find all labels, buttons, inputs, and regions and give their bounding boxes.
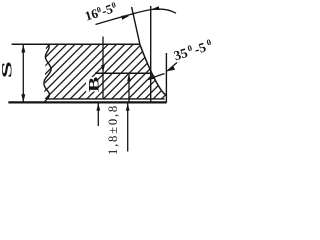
white pocket behind label B [86, 77, 98, 92]
B lower dimension line with up arrow [128, 74, 130, 102]
svg-text:1,8±0,8: 1,8±0,8 [106, 104, 120, 155]
hatching of plate section [0, 41, 219, 99]
S dimension line with arrows [22, 45, 24, 102]
bevel face (curved gas-cut edge) [140, 44, 166, 95]
svg-text:S: S [0, 61, 15, 78]
left break edge (wavy) [44, 44, 51, 102]
vertical reference line for 35 deg [165, 53, 167, 102]
label 16deg-5deg [83, 0, 118, 24]
35 deg leader to vertical line [167, 63, 177, 72]
35 deg arc segment toward bevel face [148, 74, 165, 80]
bevel face extension line above surface [132, 7, 140, 44]
internal root line (gap line) [95, 72, 150, 74]
root gap dimension line right (below plate) [127, 103, 129, 151]
B upper dimension line with down arrow [102, 37, 104, 100]
label 35deg-5deg [172, 37, 214, 64]
root face line [46, 98, 165, 100]
vertical reference line for 16 deg [150, 6, 152, 102]
bottom surface line [8, 101, 166, 103]
16 deg dimension arc with outside arrows [96, 9, 177, 24]
svg-text:В: В [86, 77, 102, 93]
root gap dimension line left (below plate) [97, 103, 99, 126]
top surface line [12, 43, 140, 45]
